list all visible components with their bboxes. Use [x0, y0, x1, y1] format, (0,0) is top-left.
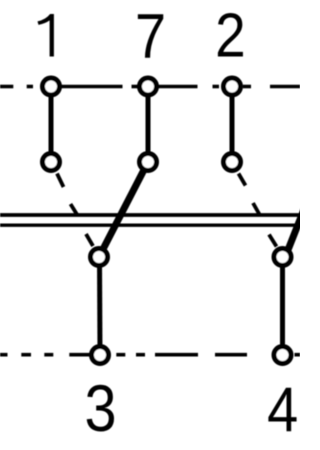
- actuator bar top line: [0, 213, 300, 217]
- wire bottom dashed line seg c: [44, 353, 53, 357]
- contact circle above 3: [91, 249, 108, 266]
- svg-text:2: 2: [215, 1, 246, 70]
- wire top line seg circle7 right: [157, 85, 198, 89]
- wire top dashed line seg c: [132, 85, 141, 89]
- wire bottom dashed line seg b: [21, 353, 31, 357]
- wire dashed alt-contact left seg2: [71, 204, 78, 215]
- svg-text:3: 3: [84, 372, 116, 445]
- wire bottom dashed line seg e: [116, 353, 125, 357]
- wire bottom dashed line seg f: [136, 353, 145, 357]
- wire stub pole2: [230, 87, 235, 162]
- wire dashed alt-contact left seg1: [57, 174, 64, 188]
- wire top dashed line seg f: [270, 85, 300, 89]
- svg-text:7: 7: [135, 1, 166, 72]
- wire top dashed line seg d: [213, 85, 220, 89]
- wire stub pole7: [146, 87, 151, 162]
- wire thick movable contact 7-3: [99, 162, 148, 257]
- terminal circle 3: [92, 347, 109, 364]
- contact circle below 1: [43, 154, 60, 171]
- terminal circle 4: [274, 347, 291, 364]
- terminal circle 7: [140, 78, 157, 95]
- wire stub pole1: [49, 87, 54, 162]
- wire top line seg circle1 to mid: [59, 85, 123, 89]
- contact circle below 2: [224, 154, 241, 171]
- label terminal 1: [38, 14, 54, 57]
- wire stub pole4: [280, 257, 285, 355]
- terminal circle 1: [43, 78, 60, 95]
- wire dashed alt-contact right seg1: [239, 174, 246, 186]
- wire bottom dashed line seg a: [0, 353, 8, 357]
- wire stub pole3: [97, 257, 103, 355]
- wire dashed alt-contact left seg3: [86, 234, 93, 246]
- wire top dashed line seg e: [243, 85, 251, 89]
- wire top dashed line seg a: [0, 85, 13, 89]
- wire bottom dashed line seg i: [295, 353, 301, 357]
- actuator bar bottom line: [0, 223, 300, 226]
- contact circle below 7: [140, 154, 157, 171]
- wire bottom dashed line seg g: [155, 353, 198, 357]
- terminal circle 2: [224, 78, 241, 95]
- wire dashed alt-contact right seg2: [253, 203, 260, 215]
- contact circle above 4: [274, 249, 291, 266]
- wire thick movable contact right (from off-canvas): [285, 164, 320, 258]
- svg-text:4: 4: [267, 374, 298, 445]
- wire top dashed line seg b: [27, 85, 33, 89]
- wire bottom dashed line seg h: [215, 353, 247, 357]
- wire dashed alt-contact right seg3: [269, 235, 277, 247]
- wire bottom dashed line seg d: [69, 353, 90, 357]
